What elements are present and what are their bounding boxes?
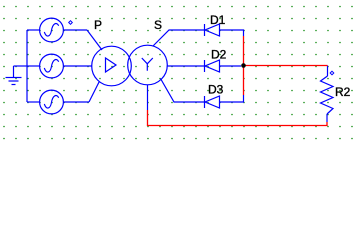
wire diagonal V3 to primary: [89, 82, 99, 103]
node marker diamond near R2: [330, 71, 334, 75]
wire left bus vertical: [26, 30, 28, 102]
node marker diamond near V1: [69, 21, 73, 25]
wire V3 right: [63, 101, 89, 103]
wire secondary to D3: [161, 79, 205, 103]
wire red junction to resistor: [244, 65, 328, 67]
svg-text:R2: R2: [335, 85, 351, 99]
wire secondary to D1: [153, 30, 205, 46]
wire ground tap: [14, 65, 28, 67]
junction node: [241, 63, 246, 68]
wire D3 out: [220, 95, 244, 102]
ground: [6, 66, 22, 85]
wire red right bus: [243, 36, 245, 95]
resistor R2: [321, 66, 334, 123]
diode D3: [205, 96, 220, 108]
transformer secondary S: [128, 45, 168, 85]
wire diagonal V1 to primary: [87, 30, 102, 50]
source V1: [40, 18, 64, 42]
wire stub bus to V3: [27, 101, 40, 103]
wire D2 out: [220, 65, 242, 67]
wire red bottom return: [148, 110, 328, 126]
svg-text:P: P: [94, 18, 102, 32]
wire D1 out: [220, 30, 244, 36]
wire V2 right: [63, 65, 92, 67]
wire secondary bottom stem: [147, 85, 149, 110]
source V3: [40, 90, 64, 114]
wire V1 right: [63, 29, 87, 31]
diode D2: [205, 60, 220, 72]
svg-text:D3: D3: [208, 83, 224, 97]
wire secondary to D2: [167, 65, 205, 67]
source V2: [40, 54, 64, 78]
wire stub bus to V1: [27, 29, 40, 31]
svg-text:D2: D2: [211, 48, 227, 62]
diode D1: [205, 24, 220, 36]
svg-text:D1: D1: [210, 13, 226, 27]
wire stub bus to V2: [27, 65, 40, 67]
transformer primary P: [92, 46, 132, 86]
svg-text:S: S: [154, 18, 162, 32]
